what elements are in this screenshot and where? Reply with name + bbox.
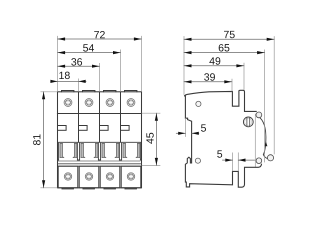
toggle arches outline: [58, 142, 142, 160]
left common extension line: [183, 37, 185, 95]
top terminal screws: [64, 99, 135, 107]
dimension 45 (right of front view, vertical): [142, 113, 160, 165]
top plateau tabs: [62, 91, 137, 92]
side front face and toggle: [185, 96, 262, 187]
dimension 49: [184, 57, 244, 67]
dimension 81 (left, vertical): [33, 92, 57, 188]
dimension 36: [58, 58, 100, 68]
dimension 54: [58, 44, 121, 54]
bottom terminal screws: [64, 173, 134, 180]
clip spring arc: [260, 118, 268, 159]
toggle shelf lines: [58, 161, 142, 166]
side body outline top: [185, 90, 257, 111]
dimension 18: [50, 72, 86, 83]
label windows: [58, 126, 130, 131]
dimension 5 (toggle): [176, 119, 206, 137]
right extension lines: [232, 37, 274, 163]
bottom feet tabs: [62, 187, 136, 190]
clip bottom circles: [256, 158, 262, 164]
arc arrowhead: [264, 142, 267, 147]
toggle handle side bars (gray): [60, 143, 140, 157]
hatched screw circle (side): [243, 117, 253, 127]
dimension 75: [184, 31, 274, 41]
rivet circles on side face: [196, 101, 201, 106]
extension lines top dims: [58, 36, 142, 91]
pivot circle on shelf: [256, 112, 262, 118]
pole divider lines: [79, 92, 121, 143]
body outline front view: [58, 92, 142, 188]
dimension 72: [58, 31, 142, 41]
bottom terminal blocks: [58, 166, 141, 188]
dimension 5 (bottom tooth): [217, 150, 254, 170]
dimension 65: [184, 44, 265, 54]
body back wall: [254, 114, 256, 167]
dimension 39: [184, 73, 232, 83]
horizontal section line (top of middle face): [58, 113, 142, 115]
